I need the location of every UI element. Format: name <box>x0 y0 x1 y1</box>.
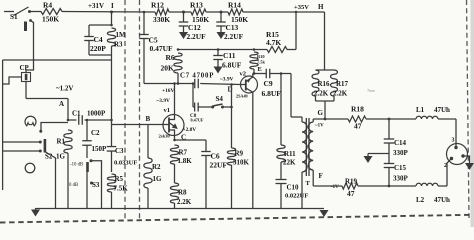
pin 2 <box>450 157 453 160</box>
ground C13 <box>217 32 226 39</box>
transformer T secondary <box>308 122 313 170</box>
svg-text:R16: R16 <box>318 80 331 88</box>
S1 lower contact bar <box>24 22 27 32</box>
svg-text:R4: R4 <box>43 1 52 10</box>
svg-text:+16V: +16V <box>162 88 174 94</box>
V1 drain stub <box>174 115 176 120</box>
resistor R15 <box>267 47 287 53</box>
ground mid <box>364 156 373 163</box>
capacitor C13 <box>220 12 222 22</box>
svg-text:R1: R1 <box>57 138 66 146</box>
svg-text:L2: L2 <box>416 196 425 204</box>
resistor R6 <box>174 53 182 73</box>
svg-text:330K: 330K <box>153 15 170 24</box>
svg-text:47Uh: 47Uh <box>434 196 450 204</box>
resistor R18 <box>348 116 366 122</box>
wire node C to C6 <box>175 139 207 141</box>
wire primary bottom to bus <box>301 172 303 209</box>
svg-text:R6: R6 <box>166 53 175 62</box>
input jack circle <box>25 163 35 173</box>
svg-text:2SA49: 2SA49 <box>236 94 248 99</box>
V2 base lead <box>241 84 246 86</box>
svg-text:B: B <box>146 115 151 123</box>
wire main left vertical <box>111 60 113 146</box>
svg-text:0.022UF: 0.022UF <box>285 193 308 200</box>
svg-text:C3: C3 <box>115 147 124 155</box>
svg-text:C1: C1 <box>72 110 81 118</box>
svg-text:2.2UF: 2.2UF <box>187 32 207 41</box>
svg-text:0 dB: 0 dB <box>69 183 78 188</box>
resistor R12 <box>155 9 169 15</box>
transformer core <box>305 118 307 176</box>
wire V1 drain up <box>174 84 176 115</box>
junction C2 top <box>86 119 89 122</box>
svg-text:R14: R14 <box>228 1 241 10</box>
svg-text:1G: 1G <box>56 153 66 161</box>
wire F line <box>313 185 342 187</box>
capacitor C14 <box>388 119 390 139</box>
switch S3 <box>86 162 89 172</box>
scan edge right <box>471 0 474 227</box>
wire shield/CP loop <box>3 59 112 61</box>
capacitor C4 <box>89 24 112 26</box>
svg-text:~3.9V: ~3.9V <box>157 98 171 104</box>
svg-text:C2: C2 <box>91 129 100 137</box>
junction R6/D-line <box>177 82 180 85</box>
resistor R8 <box>170 183 178 203</box>
svg-text:L1: L1 <box>416 106 425 114</box>
svg-text:~3.9V: ~3.9V <box>220 77 234 83</box>
svg-text:G: G <box>318 109 324 117</box>
svg-text:47: 47 <box>347 189 355 198</box>
V2 collector <box>246 88 253 92</box>
svg-text:~1.2V: ~1.2V <box>56 85 73 93</box>
wire to pin 3 <box>455 119 457 146</box>
screen chain line 1 <box>124 0 126 221</box>
resistor R1 <box>64 130 72 153</box>
wire R16/R17 merge <box>316 100 335 102</box>
wire V2 collector to bus <box>252 92 254 208</box>
junction C4/R3 top <box>110 24 113 27</box>
switch S2 contacts <box>3 141 39 143</box>
wire pin 2 down <box>447 159 452 187</box>
junction C12 <box>182 11 185 14</box>
wire CP left to shield <box>3 77 22 84</box>
capacitor C6 <box>205 140 207 152</box>
svg-text:6.8UF: 6.8UF <box>262 89 282 98</box>
wire <box>358 185 416 187</box>
svg-text:C10: C10 <box>287 184 300 192</box>
ground bus <box>36 208 325 210</box>
wire V1 source to node C <box>174 135 176 140</box>
svg-text:~1V: ~1V <box>315 124 324 129</box>
junction node E <box>253 72 256 75</box>
svg-text:C4: C4 <box>94 35 103 44</box>
junction V1 drain/D-line <box>173 82 176 85</box>
junction node C <box>173 139 176 142</box>
svg-text:R7: R7 <box>179 149 188 157</box>
svg-text:150P: 150P <box>92 145 108 153</box>
ground C12 <box>179 32 188 39</box>
junction node I <box>110 11 113 14</box>
S1 upper contact <box>28 10 31 13</box>
svg-text:CP: CP <box>20 64 30 72</box>
inductor L2 <box>416 183 438 186</box>
wire CP down to node A <box>25 82 27 99</box>
svg-text:T: T <box>306 180 311 187</box>
screen chain line right <box>467 0 470 218</box>
resistor R16 <box>312 70 319 96</box>
wire supply line y=49.5 <box>178 49 267 51</box>
ground arrow right <box>320 210 329 217</box>
junction node G <box>324 118 327 121</box>
screen chain line 2 <box>139 0 141 221</box>
capacitor C3 <box>107 146 117 148</box>
svg-text:F: F <box>319 172 323 180</box>
connector XLR output <box>447 144 468 165</box>
svg-text:2.2K: 2.2K <box>177 198 192 206</box>
junction +35V <box>295 11 297 13</box>
svg-text:R2: R2 <box>152 163 161 171</box>
wire B gate line <box>112 124 170 126</box>
wire +35V drop <box>295 12 297 50</box>
svg-text:4.7K: 4.7K <box>266 38 281 47</box>
V1 drain link <box>169 119 175 121</box>
svg-text:7.5K: 7.5K <box>114 185 129 193</box>
svg-text:20K: 20K <box>161 64 175 73</box>
bottom chain line <box>0 215 474 223</box>
svg-text:510K: 510K <box>233 159 250 167</box>
svg-text:R18: R18 <box>351 105 364 114</box>
svg-text:C14: C14 <box>394 139 407 147</box>
wire <box>438 118 456 120</box>
svg-text:R12: R12 <box>151 1 164 10</box>
svg-text:1.8K: 1.8K <box>178 157 193 165</box>
svg-text:2.2UF: 2.2UF <box>224 32 244 41</box>
junction R11 top <box>280 72 283 75</box>
junction C13 <box>220 11 223 14</box>
svg-text:C6: C6 <box>211 152 220 161</box>
switch S1 <box>4 11 14 13</box>
wire to node H <box>243 11 325 13</box>
wire R1 to ground bus <box>67 153 69 208</box>
V1 source stub <box>174 130 176 135</box>
S3 -10dB contact <box>90 159 93 162</box>
svg-text:v2: v2 <box>240 71 247 78</box>
svg-text:R13: R13 <box>190 1 203 10</box>
junction C11 top <box>217 48 220 51</box>
svg-text:S4: S4 <box>216 95 224 103</box>
junction C1/main vertical <box>110 119 113 122</box>
junction R10 top <box>253 48 256 51</box>
transformer T primary <box>301 117 303 122</box>
svg-text:C11: C11 <box>223 51 236 60</box>
svg-text:H: H <box>318 3 324 11</box>
resistor R19 <box>342 183 358 189</box>
V1 source link <box>169 129 175 131</box>
resistor R5 <box>107 174 115 192</box>
svg-text:C7 4700P: C7 4700P <box>180 73 214 80</box>
S4 left contact <box>211 106 214 109</box>
svg-text:1G: 1G <box>153 175 163 183</box>
svg-text:+2.8V: +2.8V <box>183 127 197 133</box>
resistor R7 <box>170 145 178 164</box>
transistor V2 (2SA) <box>241 76 258 93</box>
resistor R17 <box>331 70 338 96</box>
wire <box>169 11 191 13</box>
wire <box>438 185 447 187</box>
svg-text:R5: R5 <box>115 175 124 183</box>
V2 emitter <box>246 77 253 82</box>
switch S2 wiper <box>44 139 47 153</box>
svg-text:7mv: 7mv <box>367 88 376 93</box>
wire R11 branch <box>280 74 282 146</box>
wire pin 1 to ground <box>463 156 470 163</box>
svg-text:7.5k: 7.5k <box>257 60 265 65</box>
svg-text:R9: R9 <box>235 150 244 158</box>
svg-text:S3: S3 <box>92 181 100 189</box>
capacitor C12 <box>183 12 185 22</box>
S1 lower contact dot <box>29 19 32 22</box>
svg-text:0.033UF: 0.033UF <box>114 160 137 167</box>
wire <box>287 49 296 51</box>
wire D down <box>231 85 233 149</box>
S4 right contact <box>221 106 224 109</box>
V1 gate bar <box>168 118 170 133</box>
pin 1 <box>461 154 464 157</box>
wire +31V rail <box>62 11 155 14</box>
svg-text:S1: S1 <box>10 13 18 21</box>
svg-text:0.47UF: 0.47UF <box>150 44 174 53</box>
wire S3 contact to bus <box>91 161 102 208</box>
resistor R13 <box>191 9 206 15</box>
ground pin1 <box>465 163 474 170</box>
wire <box>366 118 416 120</box>
svg-text:150K: 150K <box>42 15 59 24</box>
transistor V1 (FET 2sk30) <box>163 115 184 136</box>
wire A down <box>67 99 69 121</box>
wire node H down <box>324 12 326 70</box>
S2 lower contact <box>39 150 42 153</box>
svg-text:0.47UF: 0.47UF <box>191 118 204 123</box>
wire C14/C15 midpoint to ground <box>388 143 390 164</box>
wire node A <box>26 98 68 100</box>
svg-text:2.2K: 2.2K <box>314 90 329 98</box>
S2 middle contact <box>39 141 42 144</box>
resistor R3 <box>107 28 115 46</box>
capacitor C15 <box>384 163 395 165</box>
svg-text:E: E <box>258 66 262 73</box>
svg-text:v1: v1 <box>164 107 171 114</box>
svg-text:R19: R19 <box>345 178 358 186</box>
junction S4/R9 <box>230 106 233 109</box>
resistor R14 <box>228 9 243 15</box>
wire C9 to transformer <box>290 74 292 118</box>
svg-text:3: 3 <box>452 138 455 144</box>
ground arrow left <box>31 210 40 217</box>
capacitor C10 <box>276 179 287 181</box>
resistor R4 <box>30 11 42 13</box>
svg-text:R11: R11 <box>284 150 296 158</box>
svg-text:47Uh: 47Uh <box>434 106 450 114</box>
S2 top contact <box>39 130 42 133</box>
inductor L1 <box>416 116 438 119</box>
svg-text:6.8UF: 6.8UF <box>222 61 242 70</box>
junction R6 top <box>177 48 180 51</box>
wire node I down <box>111 12 113 25</box>
V2 base bar <box>245 80 247 91</box>
svg-text:C9: C9 <box>264 79 273 88</box>
S3 0dB contact <box>90 182 93 185</box>
svg-text:I: I <box>111 2 114 10</box>
svg-text:+35V: +35V <box>294 4 309 11</box>
svg-text:330P: 330P <box>393 149 409 157</box>
capacitor C9 <box>265 69 267 79</box>
wire B to R2 <box>147 125 149 159</box>
junction C8 branch <box>192 82 195 85</box>
wire E line <box>254 73 266 75</box>
wire to node G <box>324 101 326 119</box>
svg-text:2sk30: 2sk30 <box>159 134 171 139</box>
capacitor C7 <box>194 79 196 89</box>
svg-text:R17: R17 <box>336 80 349 88</box>
microphone M1 (omega symbol) <box>25 116 36 126</box>
svg-text:1000P: 1000P <box>87 110 106 118</box>
wire S3 to bus <box>86 172 88 208</box>
wire D-line (V1 drain / C7) <box>144 83 193 85</box>
svg-text:C12: C12 <box>188 23 201 32</box>
svg-text:R10: R10 <box>257 54 265 59</box>
junction C5 top <box>143 11 146 14</box>
wire C2 stem <box>86 120 88 141</box>
svg-text:22K: 22K <box>283 159 296 167</box>
wire <box>206 11 228 13</box>
wire C11 stem <box>217 50 219 56</box>
S4 lever <box>213 104 223 106</box>
V2 emitter stub <box>252 74 254 78</box>
junction C15 <box>388 185 391 188</box>
svg-text:330P: 330P <box>393 175 409 183</box>
wire G line <box>313 118 348 120</box>
wire S1 to CP <box>26 21 34 73</box>
svg-text:22UF: 22UF <box>210 161 228 170</box>
pin 3 <box>454 146 457 149</box>
junction C14 <box>388 118 391 121</box>
svg-text:C13: C13 <box>226 23 239 32</box>
svg-text:2.2K: 2.2K <box>333 90 348 98</box>
capacitor C1 <box>68 119 77 121</box>
svg-text:47: 47 <box>354 122 362 131</box>
wire S2 to bus <box>46 152 56 208</box>
svg-text:A: A <box>59 100 64 108</box>
svg-text:220P: 220P <box>90 44 106 53</box>
svg-text:-10 dB: -10 dB <box>70 163 83 168</box>
svg-text:C15: C15 <box>394 164 407 172</box>
svg-text:R8: R8 <box>178 189 187 197</box>
junction C1 node <box>67 119 70 122</box>
wire C8 branch down <box>192 84 194 108</box>
svg-text:+31V: +31V <box>88 2 104 10</box>
wire A-node to S2 top contact <box>41 123 68 131</box>
V1 source arrow shaft <box>169 123 177 129</box>
svg-text:R3: R3 <box>114 41 123 49</box>
